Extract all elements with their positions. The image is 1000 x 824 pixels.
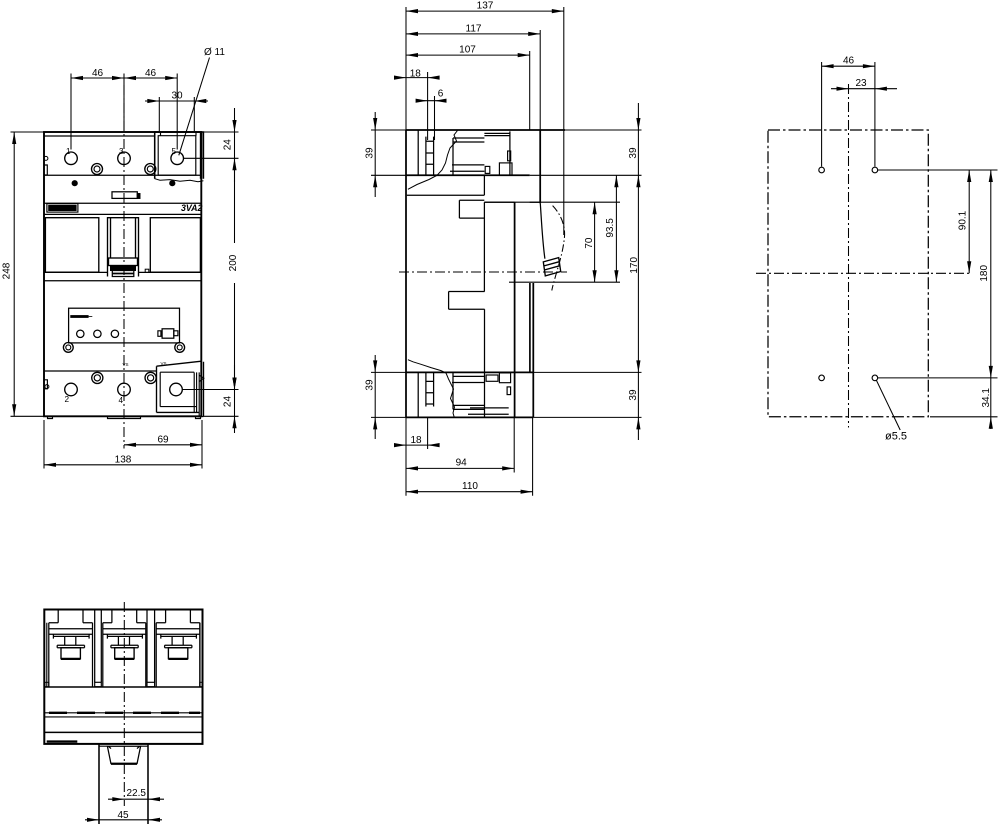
svg-text:46: 46 xyxy=(145,68,157,79)
svg-text:39: 39 xyxy=(364,147,375,159)
plate centre line horizontal xyxy=(756,272,971,274)
fixing hole bottom left xyxy=(819,375,825,381)
SIDE VIEW xyxy=(399,130,567,417)
svg-text:18: 18 xyxy=(410,68,422,79)
dimension 23 xyxy=(831,88,897,90)
extension lines left xyxy=(371,130,406,417)
right rocker recess xyxy=(150,218,200,273)
svg-text:107: 107 xyxy=(459,45,476,56)
setting dial 1 xyxy=(77,330,84,337)
front view dimensions xyxy=(11,58,239,469)
svg-text:3VA2: 3VA2 xyxy=(181,203,202,213)
svg-text:180: 180 xyxy=(979,265,990,282)
dimension 138 xyxy=(44,420,202,469)
pole 2 cavity xyxy=(103,610,146,687)
dimension 30 xyxy=(145,97,208,131)
fixing hole top left xyxy=(819,167,825,173)
front view labels xyxy=(49,147,203,405)
svg-text:69: 69 xyxy=(157,434,169,445)
fixing hole bottom right xyxy=(872,375,878,381)
panel screw right xyxy=(175,343,185,353)
brand label plate xyxy=(47,204,78,213)
side view main outline xyxy=(406,130,565,417)
svg-text:39: 39 xyxy=(364,379,375,391)
plate centre line vertical xyxy=(848,84,850,428)
dimension 45 xyxy=(85,819,162,821)
handle travel arc xyxy=(552,206,565,291)
dimension 18 bottom xyxy=(395,417,439,495)
svg-text:45: 45 xyxy=(117,810,129,821)
svg-text:137: 137 xyxy=(477,1,494,12)
toggle grip side xyxy=(543,258,560,276)
svg-text:170: 170 xyxy=(629,257,640,274)
bottom black bar xyxy=(47,740,78,742)
panel screw left xyxy=(63,343,73,353)
svg-text:39: 39 xyxy=(628,389,639,401)
dim text 200 xyxy=(229,243,241,283)
svg-text:94: 94 xyxy=(456,458,468,469)
rating window xyxy=(112,192,137,199)
terminal 6 extended cover box xyxy=(157,361,204,416)
svg-text:VS: VS xyxy=(123,362,129,367)
svg-text:46: 46 xyxy=(92,68,104,79)
svg-text:ø5.5: ø5.5 xyxy=(885,431,907,443)
svg-text:18: 18 xyxy=(410,435,422,446)
bottom terminal cage xyxy=(418,372,509,417)
pole 1 cavity xyxy=(49,610,93,687)
svg-text:24: 24 xyxy=(223,139,234,151)
dimension 39 plus 170 right xyxy=(637,103,639,440)
dimension 110 xyxy=(406,417,533,495)
svg-text:39: 39 xyxy=(628,147,639,159)
svg-text:4: 4 xyxy=(119,396,124,405)
dimension 34.1 xyxy=(930,378,998,429)
MOUNTING HOLE PLAN xyxy=(756,84,971,428)
svg-text:23: 23 xyxy=(855,78,867,89)
dimension 22.5 xyxy=(108,798,164,800)
bottom view horizontal lines xyxy=(44,687,202,732)
terminal 1 xyxy=(65,152,78,165)
bottom break line xyxy=(408,360,455,418)
svg-text:2: 2 xyxy=(65,395,70,404)
side view centre line xyxy=(399,271,567,273)
left rocker recess xyxy=(45,218,98,273)
top clamp screw left xyxy=(92,164,103,175)
dimension 248 xyxy=(11,132,45,416)
outer wall inner lines xyxy=(47,623,200,687)
dimension 94 xyxy=(406,417,514,472)
svg-text:1: 1 xyxy=(66,147,71,156)
dimension 46 holes xyxy=(822,62,875,167)
terminal 5 extended cover box xyxy=(155,132,204,179)
terminal 4 xyxy=(118,383,131,396)
side hook circle bottom xyxy=(45,385,49,389)
rail slot trapezoid xyxy=(107,746,140,763)
dimension 107 xyxy=(406,51,530,130)
bottom view centre line xyxy=(123,602,125,806)
leader hole diameter xyxy=(877,381,901,431)
front view centre line xyxy=(123,85,125,449)
side hook slots xyxy=(44,165,47,389)
side hook circle top xyxy=(44,156,48,160)
top break line xyxy=(408,131,458,190)
setting dial 3 xyxy=(111,330,118,337)
svg-text:70: 70 xyxy=(584,237,595,249)
front view body outline xyxy=(44,132,201,416)
top terminal cage xyxy=(418,130,510,175)
dimension 69 xyxy=(124,420,202,469)
dimension 24 bottom xyxy=(183,365,239,433)
dimension 117 xyxy=(406,30,540,130)
dimension 24 top xyxy=(184,108,239,182)
leader diameter 11 xyxy=(179,58,210,156)
rail dashes xyxy=(49,712,200,714)
dimension 39 left top xyxy=(374,112,376,197)
svg-text:138: 138 xyxy=(115,454,132,465)
dimension 137 xyxy=(406,7,564,235)
pole separator 1-2 xyxy=(95,610,102,683)
dimension 90.1 xyxy=(878,170,998,273)
svg-text:24: 24 xyxy=(223,396,234,408)
extension lines right xyxy=(484,130,641,417)
svg-text:46: 46 xyxy=(843,56,855,67)
svg-text:248: 248 xyxy=(2,262,13,279)
dimension 6 xyxy=(416,96,446,140)
svg-text:Ø 11: Ø 11 xyxy=(204,47,225,58)
cover screw dot right xyxy=(169,180,175,186)
side view dimensions xyxy=(371,7,642,496)
top clamp screw right xyxy=(145,164,156,175)
side view profile lines xyxy=(407,175,540,417)
svg-text:200: 200 xyxy=(228,254,239,271)
cover screw dot left xyxy=(72,180,78,186)
svg-text:30: 30 xyxy=(171,90,183,101)
terminal 2 xyxy=(65,383,78,396)
terminal 5 xyxy=(171,152,184,165)
setting dial 2 xyxy=(94,330,101,337)
svg-text:90.1: 90.1 xyxy=(958,210,969,230)
mounting plate outline xyxy=(768,130,928,417)
toggle lever side xyxy=(540,203,545,258)
bottom view outline xyxy=(44,610,202,744)
svg-text:3: 3 xyxy=(119,147,124,156)
svg-text:22.5: 22.5 xyxy=(127,788,147,799)
toggle handle front xyxy=(108,218,139,277)
dimension 180 xyxy=(878,170,998,378)
front view horizontal part lines xyxy=(44,136,201,371)
test connector xyxy=(158,331,161,337)
trip unit settings panel xyxy=(69,308,180,343)
dimension 93.5 xyxy=(615,175,617,282)
DIN rail foot xyxy=(99,744,148,824)
dimension 46 46 xyxy=(71,74,177,150)
fixing hole top right xyxy=(872,167,878,173)
svg-text:SIEMENS: SIEMENS xyxy=(49,206,76,212)
svg-text:VS: VS xyxy=(161,361,167,366)
svg-text:34.1: 34.1 xyxy=(981,388,992,408)
svg-text:5: 5 xyxy=(172,147,177,156)
svg-text:110: 110 xyxy=(462,481,478,492)
bottom clamp screw left xyxy=(92,372,103,383)
mounting feet tabs xyxy=(48,416,201,418)
dimension 200 xyxy=(234,158,236,389)
svg-text:93.5: 93.5 xyxy=(605,218,616,238)
dimension 18 top xyxy=(395,7,439,140)
pole 3 cavity xyxy=(156,610,200,687)
dimension 70 xyxy=(594,202,596,282)
svg-text:6: 6 xyxy=(438,89,444,100)
svg-text:117: 117 xyxy=(466,23,482,34)
FRONT VIEW xyxy=(44,85,204,449)
pole separator 2-3 xyxy=(147,610,155,683)
BOTTOM VIEW xyxy=(44,602,202,824)
dimension 39 left bottom xyxy=(374,355,376,439)
terminal 6 xyxy=(170,383,183,396)
bottom clamp screw right xyxy=(145,372,156,383)
terminal 3 xyxy=(118,152,131,165)
